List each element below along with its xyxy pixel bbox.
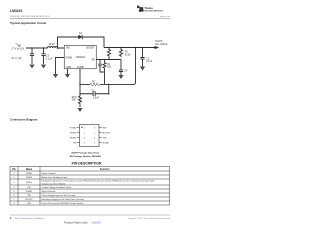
svg-text:INSTRUMENTS: INSTRUMENTS <box>145 10 164 12</box>
wire COMP pin down <box>80 69 109 96</box>
svg-text:Product Folder Links:: Product Folder Links: <box>64 221 88 225</box>
capacitor C2 output <box>140 48 144 67</box>
svg-text:FREQ: FREQ <box>70 137 76 139</box>
table pin numbers <box>13 173 33 205</box>
ground C2 <box>140 67 145 71</box>
wire comp rail 2 <box>80 93 109 95</box>
svg-text:LM3224: LM3224 <box>76 55 86 59</box>
wire FB net <box>96 58 121 60</box>
pin stubs left <box>77 128 80 143</box>
svg-text:2.2nF: 2.2nF <box>93 98 99 100</box>
svg-text:Typical Application Circuit: Typical Application Circuit <box>10 21 46 25</box>
wire GND pin <box>67 69 69 74</box>
svg-text:10 µF: 10 µF <box>146 61 153 63</box>
regulator U1 LM3224 box <box>64 46 96 69</box>
resistor R1 (right element) <box>119 48 122 58</box>
resistor R2 <box>103 60 106 85</box>
pin 1 dot <box>81 127 82 128</box>
pin stubs right <box>99 128 102 143</box>
footer rule <box>10 214 170 216</box>
svg-text:PGND: PGND <box>26 173 33 175</box>
svg-text:Function: Function <box>100 168 110 171</box>
svg-text:VIN: VIN <box>27 195 31 197</box>
ground RFQ <box>77 108 82 112</box>
VIN arrow <box>16 43 21 46</box>
svg-text:COMP: COMP <box>77 67 84 69</box>
TI logo bug <box>137 6 144 13</box>
wire VOUT to comp bottom <box>109 48 136 85</box>
svg-text:Bootstrap Supply for the Gate: Bootstrap Supply for the Gate Drive Circ… <box>42 198 85 201</box>
wire SW node <box>58 37 105 48</box>
svg-text:SHDN: SHDN <box>66 57 73 59</box>
svg-text:VOUT: VOUT <box>155 39 163 43</box>
svg-text:GND: GND <box>66 67 71 69</box>
svg-text:SHDN: SHDN <box>26 177 32 179</box>
svg-text:CC: CC <box>92 90 96 92</box>
pin numbers <box>84 127 95 144</box>
svg-text:RC: RC <box>92 82 96 84</box>
wire output rail <box>104 47 156 49</box>
svg-text:Submit Documentation Feedback: Submit Documentation Feedback <box>14 217 44 220</box>
svg-text:1: 1 <box>84 127 85 129</box>
svg-text:www.ti.com: www.ti.com <box>160 15 170 18</box>
table descriptions <box>42 173 155 205</box>
svg-text:SGND: SGND <box>103 142 110 144</box>
svg-text:Output Voltage Feedback Input: Output Voltage Feedback Input <box>42 186 72 189</box>
svg-text:3: 3 <box>84 137 85 139</box>
resistor RFQ <box>79 96 82 107</box>
inductor L1 <box>48 47 58 48</box>
svg-text:C1 4.7 µF: C1 4.7 µF <box>12 58 23 60</box>
resistor RC <box>90 83 100 86</box>
svg-text:PIN DESCRIPTION: PIN DESCRIPTION <box>72 161 102 165</box>
svg-text:Texas: Texas <box>145 6 154 10</box>
capacitor CF1 on FB node <box>98 60 104 73</box>
svg-text:FB: FB <box>92 59 95 61</box>
svg-text:VIN: VIN <box>103 137 107 139</box>
svg-text:Power Supply Input for the Cir: Power Supply Input for the Circuitry <box>42 194 77 197</box>
capacitor C3 input <box>41 48 45 64</box>
wire comp rail 1 <box>80 83 109 85</box>
svg-text:Power Ground: Power Ground <box>42 173 57 175</box>
svg-text:NS Package Number MUA08A: NS Package Number MUA08A <box>70 155 101 158</box>
diode D1 <box>79 35 83 39</box>
svg-text:5: 5 <box>94 142 95 144</box>
svg-text:MSOP Package (Top View): MSOP Package (Top View) <box>72 153 100 155</box>
svg-text:LM3224: LM3224 <box>92 221 102 225</box>
capacitor CF <box>119 70 123 72</box>
table grid <box>10 167 170 206</box>
svg-text:Pin: Pin <box>12 169 16 171</box>
capacitor C1 input <box>30 48 34 64</box>
svg-text:FREQ: FREQ <box>26 182 32 184</box>
svg-text:BOOST: BOOST <box>86 48 95 50</box>
schematic labels <box>12 33 168 102</box>
pin names <box>70 127 111 144</box>
ground CF <box>118 75 123 79</box>
resistor R1 (left element) <box>107 48 110 58</box>
svg-text:2: 2 <box>84 132 85 134</box>
node dots <box>31 47 143 95</box>
pinout package box <box>77 125 103 147</box>
ground U1 <box>65 74 70 78</box>
svg-text:Copyright © 2013, Texas Instru: Copyright © 2013, Texas Instruments Inco… <box>128 217 170 220</box>
wire input rail <box>26 47 48 49</box>
VOUT arrow <box>155 47 158 49</box>
svg-text:Active Low Shutdown Input: Active Low Shutdown Input <box>42 176 68 179</box>
svg-text:Connection Diagram: Connection Diagram <box>10 118 38 122</box>
svg-text:BOOST: BOOST <box>103 132 111 134</box>
svg-text:2.7V to 5.5V: 2.7V to 5.5V <box>12 47 25 50</box>
capacitor CC <box>93 91 95 96</box>
wire SHDN to ground <box>56 58 65 75</box>
ground C1 <box>29 65 34 69</box>
svg-text:6: 6 <box>94 137 95 139</box>
svg-text:Signal Ground: Signal Ground <box>42 191 56 193</box>
svg-text:BOOST: BOOST <box>25 199 33 201</box>
svg-text:7: 7 <box>94 132 95 134</box>
ground C3 <box>41 65 46 69</box>
svg-text:12V, 300mA: 12V, 300mA <box>155 43 168 46</box>
svg-text:Frequency adjust pin. Connecti: Frequency adjust pin. Connecting a resis… <box>42 180 155 183</box>
header rule <box>10 18 170 20</box>
svg-text:LM3224: LM3224 <box>10 9 23 13</box>
svg-text:0.1 µF: 0.1 µF <box>46 58 53 60</box>
ground SHDN <box>53 74 58 78</box>
svg-text:PGND: PGND <box>70 127 77 129</box>
svg-text:8: 8 <box>94 127 95 129</box>
svg-text:SGND: SGND <box>26 191 33 193</box>
svg-text:10 µH: 10 µH <box>49 44 56 46</box>
svg-text:4: 4 <box>84 142 85 144</box>
svg-text:frequency of the LM3224: frequency of the LM3224 <box>42 182 66 185</box>
svg-text:52.3k: 52.3k <box>125 54 131 56</box>
svg-text:SW: SW <box>27 203 30 205</box>
svg-text:Name: Name <box>26 169 33 171</box>
svg-text:SHDN: SHDN <box>70 132 77 134</box>
svg-text:Drain of the internal MOSFET P: Drain of the internal MOSFET Power Switc… <box>42 202 85 205</box>
table header <box>12 168 110 171</box>
svg-text:SNVS338F –MAY 2004–REVISED APR: SNVS338F –MAY 2004–REVISED APRIL 2013 <box>10 15 50 18</box>
